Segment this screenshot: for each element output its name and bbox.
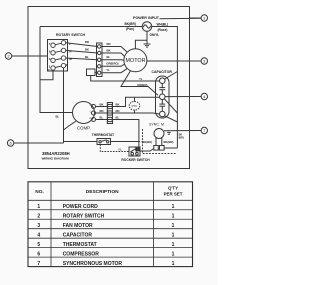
svg-text:BK(BR): BK(BR) bbox=[125, 22, 136, 26]
svg-text:BL: BL bbox=[56, 115, 60, 119]
svg-text:MOTOR: MOTOR bbox=[126, 58, 146, 64]
svg-text:ROTARY SWITCH: ROTARY SWITCH bbox=[56, 33, 86, 37]
svg-text:POWER INPUT: POWER INPUT bbox=[133, 16, 160, 20]
svg-text:1: 1 bbox=[37, 204, 40, 210]
svg-text:YL: YL bbox=[118, 147, 122, 151]
svg-text:1: 1 bbox=[172, 223, 175, 229]
svg-text:BK: BK bbox=[116, 102, 120, 106]
svg-text:1: 1 bbox=[172, 214, 175, 220]
svg-text:1: 1 bbox=[172, 242, 175, 248]
svg-text:BK(BR): BK(BR) bbox=[164, 140, 174, 144]
svg-text:RD: RD bbox=[107, 42, 111, 46]
svg-text:(Rose): (Rose) bbox=[158, 28, 168, 32]
svg-text:BL: BL bbox=[100, 115, 104, 119]
svg-text:Q'TY: Q'TY bbox=[168, 186, 178, 191]
svg-text:GN/YL: GN/YL bbox=[150, 33, 160, 37]
svg-text:ROTARY SWITCH: ROTARY SWITCH bbox=[63, 214, 105, 220]
svg-text:DESCRIPTION: DESCRIPTION bbox=[86, 189, 119, 195]
svg-text:BL: BL bbox=[85, 55, 89, 59]
svg-text:5: 5 bbox=[37, 242, 40, 248]
svg-text:6: 6 bbox=[37, 251, 40, 257]
svg-text:(Pan): (Pan) bbox=[126, 27, 134, 31]
svg-text:PER SET: PER SET bbox=[164, 191, 183, 196]
svg-text:THERMOSTAT: THERMOSTAT bbox=[63, 242, 97, 248]
svg-text:1: 1 bbox=[172, 261, 175, 267]
svg-text:CAPACITOR: CAPACITOR bbox=[63, 233, 93, 239]
svg-text:SYNCHRONOUS MOTOR: SYNCHRONOUS MOTOR bbox=[63, 261, 123, 267]
svg-text:COMPRESSOR: COMPRESSOR bbox=[63, 251, 100, 257]
svg-text:YL: YL bbox=[106, 68, 110, 72]
svg-text:NO.: NO. bbox=[35, 189, 44, 195]
svg-text:WH(BL): WH(BL) bbox=[157, 23, 169, 27]
svg-text:OR(BR): OR(BR) bbox=[137, 83, 147, 87]
svg-text:THERMOSTAT: THERMOSTAT bbox=[92, 133, 114, 137]
svg-text:H: H bbox=[69, 50, 71, 54]
svg-text:WIRING DIAGRAM: WIRING DIAGRAM bbox=[42, 157, 70, 161]
svg-text:7: 7 bbox=[37, 261, 40, 267]
svg-text:COMP.: COMP. bbox=[77, 126, 91, 131]
svg-text:BK: BK bbox=[107, 48, 111, 52]
svg-text:L: L bbox=[69, 42, 71, 46]
svg-text:RD: RD bbox=[85, 40, 89, 44]
svg-text:3: 3 bbox=[37, 223, 40, 229]
svg-text:WH(BK): WH(BK) bbox=[142, 140, 153, 144]
svg-text:RD: RD bbox=[100, 109, 104, 113]
svg-text:1: 1 bbox=[172, 251, 175, 257]
svg-text:BL: BL bbox=[116, 115, 120, 119]
svg-text:4: 4 bbox=[37, 233, 40, 239]
svg-text:2: 2 bbox=[37, 214, 40, 220]
svg-text:CAPACITOR: CAPACITOR bbox=[151, 70, 172, 74]
svg-text:ROCKER SWITCH: ROCKER SWITCH bbox=[121, 158, 150, 162]
svg-text:FAN MOTOR: FAN MOTOR bbox=[63, 223, 93, 229]
svg-text:RD: RD bbox=[116, 109, 120, 113]
svg-text:PTC: PTC bbox=[132, 104, 138, 108]
svg-text:SYNC. M.: SYNC. M. bbox=[149, 123, 165, 127]
svg-text:3854AR2208H: 3854AR2208H bbox=[42, 151, 70, 156]
svg-text:(BR): (BR) bbox=[179, 137, 184, 140]
svg-text:BK: BK bbox=[85, 48, 89, 52]
svg-text:1: 1 bbox=[172, 233, 175, 239]
svg-text:1: 1 bbox=[172, 204, 175, 210]
svg-text:YL: YL bbox=[139, 77, 143, 81]
svg-text:BL: BL bbox=[107, 55, 111, 59]
svg-text:POWER CORD: POWER CORD bbox=[63, 204, 98, 210]
svg-text:OR(BRO): OR(BRO) bbox=[106, 62, 118, 66]
svg-text:BK: BK bbox=[100, 102, 104, 106]
